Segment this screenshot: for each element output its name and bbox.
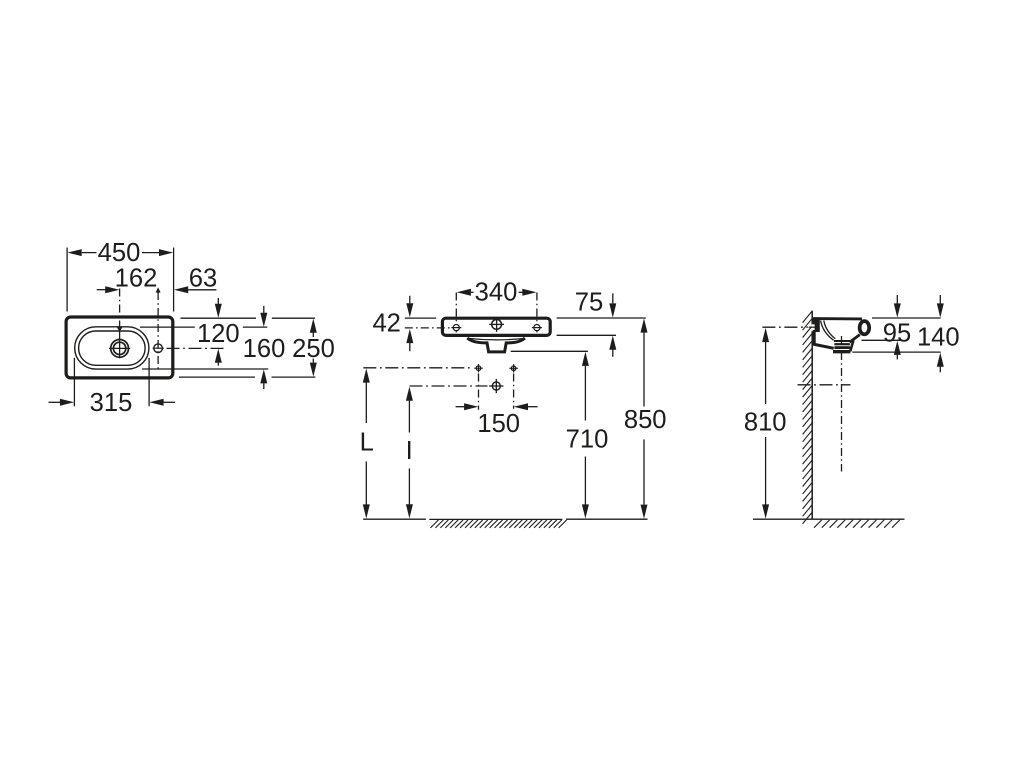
svg-text:42: 42 bbox=[372, 310, 400, 338]
svg-text:75: 75 bbox=[575, 289, 603, 317]
svg-text:63: 63 bbox=[189, 265, 217, 293]
svg-text:810: 810 bbox=[744, 408, 787, 436]
svg-text:95: 95 bbox=[883, 320, 911, 348]
svg-text:I: I bbox=[406, 437, 413, 465]
svg-text:710: 710 bbox=[566, 426, 609, 454]
svg-text:160: 160 bbox=[243, 335, 286, 363]
svg-text:315: 315 bbox=[90, 389, 133, 417]
svg-text:140: 140 bbox=[917, 324, 960, 352]
svg-text:162: 162 bbox=[115, 265, 158, 293]
svg-text:120: 120 bbox=[197, 320, 240, 348]
svg-text:250: 250 bbox=[292, 335, 335, 363]
svg-text:340: 340 bbox=[475, 278, 518, 306]
svg-text:150: 150 bbox=[477, 410, 520, 438]
svg-text:850: 850 bbox=[624, 406, 667, 434]
svg-text:450: 450 bbox=[98, 239, 141, 267]
svg-text:L: L bbox=[360, 429, 374, 457]
